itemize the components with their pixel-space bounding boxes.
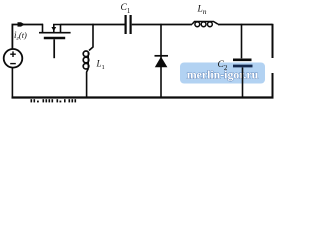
svg-text:C1: C1 (121, 3, 131, 15)
inductor L1 coil (83, 51, 89, 57)
svg-text:Lп: Lп (197, 5, 207, 17)
inductor Ln coil (192, 22, 218, 25)
capacitor C2 top plate (233, 58, 252, 61)
capacitor C1 right plate (130, 15, 132, 34)
wire: right edge upper segment (272, 24, 274, 58)
watermark merlin-igor.ru (180, 63, 265, 84)
diode VD1 branch wire (160, 24, 162, 98)
diode VD1 triangle (155, 57, 168, 68)
transistor VT1 gate lead (53, 39, 55, 58)
svg-text:L1: L1 (96, 59, 105, 72)
caption fragments below rail (31, 99, 77, 102)
diode VD1 cathode bar (155, 55, 169, 57)
wire: source bottom to ground rail (11, 68, 13, 98)
svg-text:iг(t): iг(t) (14, 30, 27, 42)
capacitor C1 left plate (124, 15, 126, 34)
wire: right edge lower segment (272, 73, 274, 98)
wire: bottom ground rail (12, 96, 274, 98)
capacitor C2 top wire (241, 24, 243, 59)
source G1 circle (4, 49, 23, 68)
capacitor C2 bottom plate (under watermark) (233, 65, 253, 68)
capacitor C2 bottom wire (242, 68, 244, 98)
transistor VT1 source lead (42, 24, 44, 33)
source plus sign (10, 51, 16, 57)
wire: rail C1 to Ln coil (132, 24, 192, 26)
inductor L1 bottom wire (87, 69, 89, 98)
wire: rail drain to C1 (61, 24, 125, 26)
transistor VT1 body lead with top connector to drain (54, 25, 61, 33)
transistor VT1 gate bar (44, 37, 65, 40)
source minus sign (10, 63, 16, 65)
current direction arrow (18, 22, 25, 26)
transistor VT1 channel line (39, 32, 71, 34)
wire: top-left corner from source up to rail (12, 25, 43, 50)
transistor VT1 body arrow (51, 27, 56, 31)
wire: rail Ln to top-right corner (218, 24, 273, 26)
inductor L1 top branch wire (89, 24, 93, 51)
